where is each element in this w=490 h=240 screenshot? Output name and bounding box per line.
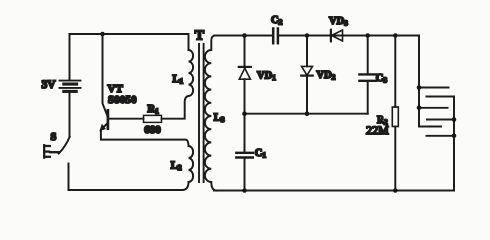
svg-text:R1: R1 (148, 104, 160, 116)
wire switch to bottom rail (68, 164, 70, 191)
wire emitter to L2 top (101, 130, 189, 146)
node VD2 top junction (305, 33, 310, 38)
grid electrode left bus (419, 36, 441, 127)
node right bus tooth 3 (452, 134, 457, 139)
wire top rail right section (215, 35, 273, 37)
node left bus tooth 2 (417, 106, 422, 111)
svg-text:S: S (51, 132, 57, 143)
inductor L2 primary winding (189, 146, 194, 182)
svg-text:VD1: VD1 (257, 71, 276, 83)
transistor VT emitter with arrow (100, 123, 108, 130)
switch S pushbutton actuator (44, 145, 59, 157)
wire base lead (109, 118, 144, 120)
node C1 bottom junction (242, 188, 247, 193)
wire collector lead (103, 34, 108, 116)
node collector junction (100, 32, 105, 37)
resistor R1 (144, 115, 162, 122)
grid electrode left tooth 2 (419, 107, 448, 109)
capacitor C2 (273, 29, 278, 44)
grid electrode right tooth 2 (427, 119, 454, 121)
svg-text:VD2: VD2 (317, 70, 336, 82)
wire battery to switch (69, 93, 71, 137)
grid electrode right bus with top tooth (427, 97, 455, 191)
svg-text:VD3: VD3 (329, 16, 348, 28)
diode VD2 (301, 36, 312, 114)
svg-text:3V: 3V (42, 79, 57, 91)
diode VD1 (239, 36, 251, 152)
wire top rail left section (70, 34, 189, 50)
svg-text:L3: L3 (214, 112, 225, 124)
svg-text:C3: C3 (376, 73, 388, 85)
svg-text:VT: VT (108, 83, 124, 95)
svg-text:T: T (195, 29, 205, 44)
resistor R2 (392, 36, 398, 191)
node left bus tooth 1 (417, 85, 422, 90)
inductor L1 primary winding (189, 50, 194, 96)
svg-text:22M: 22M (366, 123, 389, 137)
grid electrode left tooth 1 (419, 87, 449, 89)
node VD1 top junction (242, 33, 247, 38)
svg-text:L1: L1 (173, 74, 184, 86)
transformer T core (199, 44, 204, 182)
transistor VT base bar (107, 110, 110, 128)
svg-text:680: 680 (144, 124, 161, 136)
svg-text:C1: C1 (255, 148, 267, 160)
wire bottom rail right section (214, 190, 454, 192)
capacitor C1 (236, 153, 253, 158)
wire C1 to bottom rail (244, 159, 246, 191)
svg-text:S8050: S8050 (108, 95, 137, 106)
inductor L3 secondary winding (205, 36, 216, 191)
node mid rail left junction (242, 111, 247, 116)
svg-text:C2: C2 (271, 15, 283, 27)
capacitor C3 (359, 36, 376, 114)
wire R1 to L1 bottom (162, 96, 189, 119)
diode VD3 (331, 30, 343, 42)
grid electrode right tooth 3 (427, 135, 455, 137)
battery GB 3V (60, 81, 81, 92)
wire battery top lead (69, 34, 71, 79)
switch S blade (59, 137, 70, 154)
node R2 top junction (393, 33, 398, 38)
wire bottom rail left section (69, 182, 189, 190)
node R2 bottom junction (393, 188, 398, 193)
svg-text:L2: L2 (171, 160, 182, 172)
node C3 top junction (365, 33, 370, 38)
wire mid rail (245, 113, 368, 115)
node right bus tooth 2 (452, 117, 457, 122)
node VD2 bottom junction (305, 111, 310, 116)
